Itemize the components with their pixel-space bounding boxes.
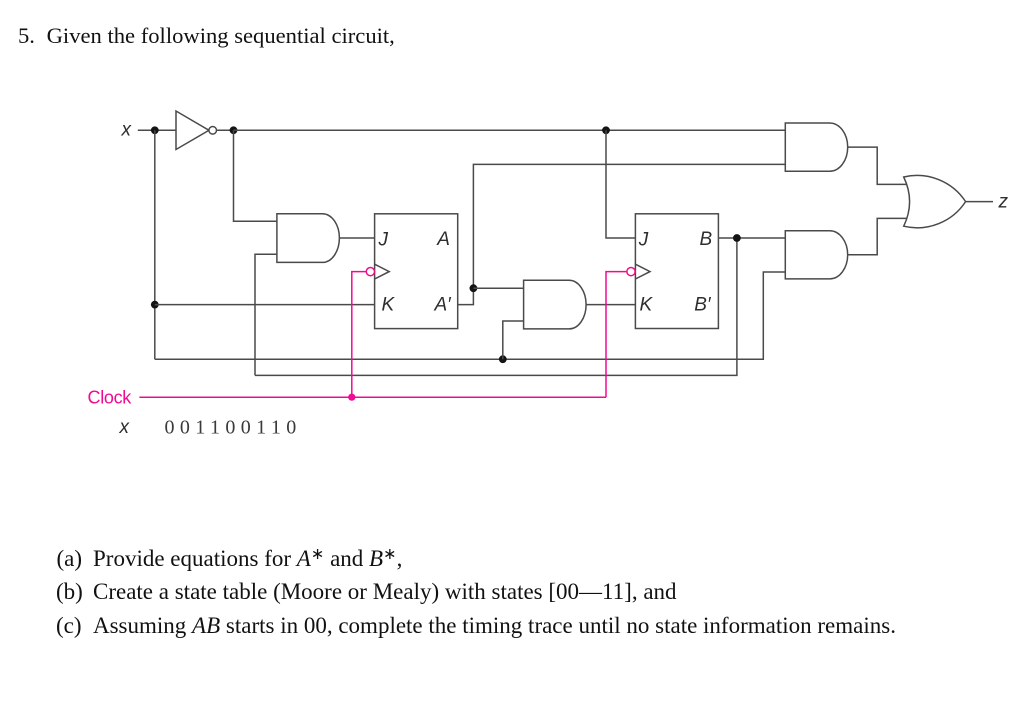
svg-text:x: x xyxy=(119,417,131,438)
inverter U1 output bubble xyxy=(209,127,217,135)
wire G4 output to OR G5 xyxy=(848,218,909,254)
wire A' to AND G2 upper input xyxy=(473,287,523,289)
clock chevron FF A xyxy=(375,264,390,279)
wire bottom rail 2 xyxy=(255,238,737,375)
junction node x1 xyxy=(151,126,159,134)
svg-text:001100110: 001100110 xyxy=(165,417,302,439)
wire G1 lower input xyxy=(255,254,277,375)
and-gate G2 xyxy=(524,280,586,329)
wire x vertical drop xyxy=(154,130,156,359)
svg-text:B: B xyxy=(700,229,713,250)
wire x3 drop to J of FF B xyxy=(606,130,635,238)
and-gate G3 (top right) xyxy=(785,123,847,171)
svg-text:K: K xyxy=(640,295,654,316)
clock bubble FF A xyxy=(366,268,374,276)
junction node r1 xyxy=(499,355,507,363)
wire clock to FF A xyxy=(352,272,367,398)
wire clock to FF B xyxy=(606,272,627,398)
wire G2 output to K of FF B xyxy=(586,304,635,306)
junction node a1 xyxy=(470,284,478,292)
junction node b1 xyxy=(733,234,741,242)
wire top x' rail xyxy=(234,129,786,131)
list item (a) xyxy=(57,547,83,570)
clock bubble FF B xyxy=(627,268,635,276)
wire x lead xyxy=(138,129,176,131)
svg-text:J: J xyxy=(378,229,389,250)
svg-text:A′: A′ xyxy=(434,295,453,316)
wire A' output xyxy=(458,164,786,304)
wire bubble to node x' xyxy=(216,129,233,131)
wire G3 output to OR G5 xyxy=(848,147,909,184)
jk-flip-flop A body xyxy=(375,214,458,329)
wire rail1 to AND G2 lower input xyxy=(503,321,524,359)
wire B output to AND G4 xyxy=(718,237,785,239)
svg-text:J: J xyxy=(638,229,649,250)
wire G1 output to J of FF A xyxy=(340,237,375,239)
clock chevron FF B xyxy=(635,264,650,279)
jk-flip-flop B body xyxy=(635,214,718,329)
junction node x3 xyxy=(602,126,610,134)
junction node clk1 xyxy=(348,394,355,401)
wire K input of FF A xyxy=(155,304,375,306)
svg-text:x: x xyxy=(121,120,133,141)
svg-text:A: A xyxy=(436,229,450,250)
junction node x2 xyxy=(230,126,238,134)
problem title xyxy=(18,24,395,47)
list item (b) xyxy=(56,580,83,603)
and-gate G4 (bottom right) xyxy=(785,231,847,279)
junction node x4 xyxy=(151,301,159,309)
or-gate G5 xyxy=(904,175,966,227)
list item (c) xyxy=(56,614,82,637)
inverter U1 xyxy=(176,111,209,150)
wire bottom rail 1 xyxy=(155,272,786,359)
circuit schematic xyxy=(0,0,1024,500)
svg-text:Clock: Clock xyxy=(88,387,133,407)
wire clock rail xyxy=(139,396,606,398)
wire z output xyxy=(966,201,993,203)
svg-text:K: K xyxy=(382,295,396,316)
wire x2 drop to AND G1 xyxy=(234,130,277,221)
and-gate G1 xyxy=(277,214,340,263)
svg-text:B′: B′ xyxy=(694,295,712,316)
svg-text:z: z xyxy=(998,192,1009,213)
